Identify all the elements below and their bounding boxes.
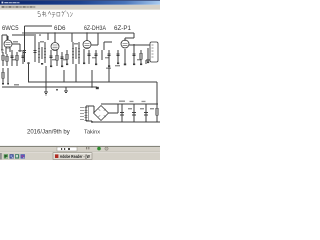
svg-text:6D6: 6D6 [54,25,66,32]
svg-text:2016/Jan/9th by: 2016/Jan/9th by [27,130,70,136]
svg-text:Takinx: Takinx [84,130,100,136]
svg-text:6Z-P1: 6Z-P1 [114,25,131,32]
svg-text:6WC5: 6WC5 [2,25,19,32]
svg-text:6Z-DH3A: 6Z-DH3A [84,25,107,32]
svg-text:Adobe Reader - [W: Adobe Reader - [W [60,154,90,159]
